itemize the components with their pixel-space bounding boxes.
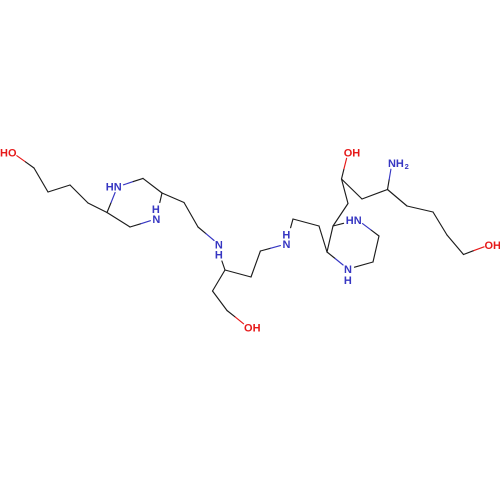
- bond N4-E1 (clipped at H label): [291, 219, 293, 228]
- bond K0-K1: [48, 185, 70, 192]
- svg-text:H: H: [215, 249, 223, 261]
- bond N5-Cr1 (black near label): [355, 262, 374, 267]
- svg-text:HN: HN: [346, 215, 362, 227]
- bond Ck-Obot: [227, 311, 235, 318]
- bond Ca-Cx: [143, 178, 162, 193]
- bond Cx-N2 (clipped at H label): [160, 193, 162, 203]
- bond Cf-N5: [327, 252, 335, 259]
- svg-text:NH: NH: [388, 158, 404, 170]
- bond Ce-N4: [260, 248, 270, 251]
- bond Cr1-Cg: [373, 236, 379, 262]
- bond B1-D1: [213, 270, 226, 291]
- bond Ci-Nh2: [388, 179, 390, 189]
- bond N1-Ca: [124, 182, 134, 185]
- bond Cr2-Vh: [333, 204, 348, 227]
- bond K2-Cb: [88, 203, 107, 213]
- bond B2-Ce: [251, 251, 260, 277]
- svg-text:OH: OH: [344, 148, 361, 160]
- svg-text:HO: HO: [0, 147, 17, 159]
- bond E1-E2: [293, 219, 319, 226]
- bond Cr2-Cf: [327, 226, 333, 252]
- svg-text:H: H: [344, 275, 352, 287]
- bond Vax-Cd: [184, 203, 198, 228]
- bond C1-K0: [34, 168, 48, 192]
- svg-text:N: N: [283, 239, 291, 251]
- bond D1-Ck: [213, 291, 228, 311]
- bond Cj-Oright: [464, 251, 474, 255]
- bond N6-Cr2 (clipped at H label): [333, 223, 344, 226]
- bond B1-B2: [225, 270, 251, 277]
- bond Cb-N1: [107, 203, 111, 213]
- bond M-Ci: [362, 190, 388, 200]
- bond Cc-Cb: [107, 213, 130, 228]
- svg-text:2: 2: [405, 162, 409, 171]
- bond R2-R3: [433, 212, 447, 235]
- bond R1-R2: [407, 206, 433, 212]
- bond R3-Cj: [447, 235, 464, 255]
- bond Ch-M: [342, 179, 363, 199]
- svg-text:OH: OH: [484, 240, 500, 252]
- bond K1-K2: [70, 185, 88, 203]
- bond Cg-N6: [371, 230, 379, 236]
- bond E2-Cf: [319, 226, 327, 252]
- bond Vh-Ch: [342, 179, 349, 204]
- bond Ch-Otop: [342, 169, 345, 179]
- bond Ci-R1: [388, 190, 408, 207]
- bond O1-C1 (phenol-left C-O): [17, 156, 26, 162]
- svg-text:OH: OH: [244, 323, 261, 335]
- svg-text:HN: HN: [106, 182, 122, 194]
- svg-text:N: N: [152, 214, 160, 226]
- bond N2-Cc: [140, 221, 150, 224]
- bond Cx-Vax: [162, 193, 184, 203]
- bond N3-B1 (clipped at H label): [222, 261, 225, 270]
- bond Cd-N3: [198, 227, 206, 234]
